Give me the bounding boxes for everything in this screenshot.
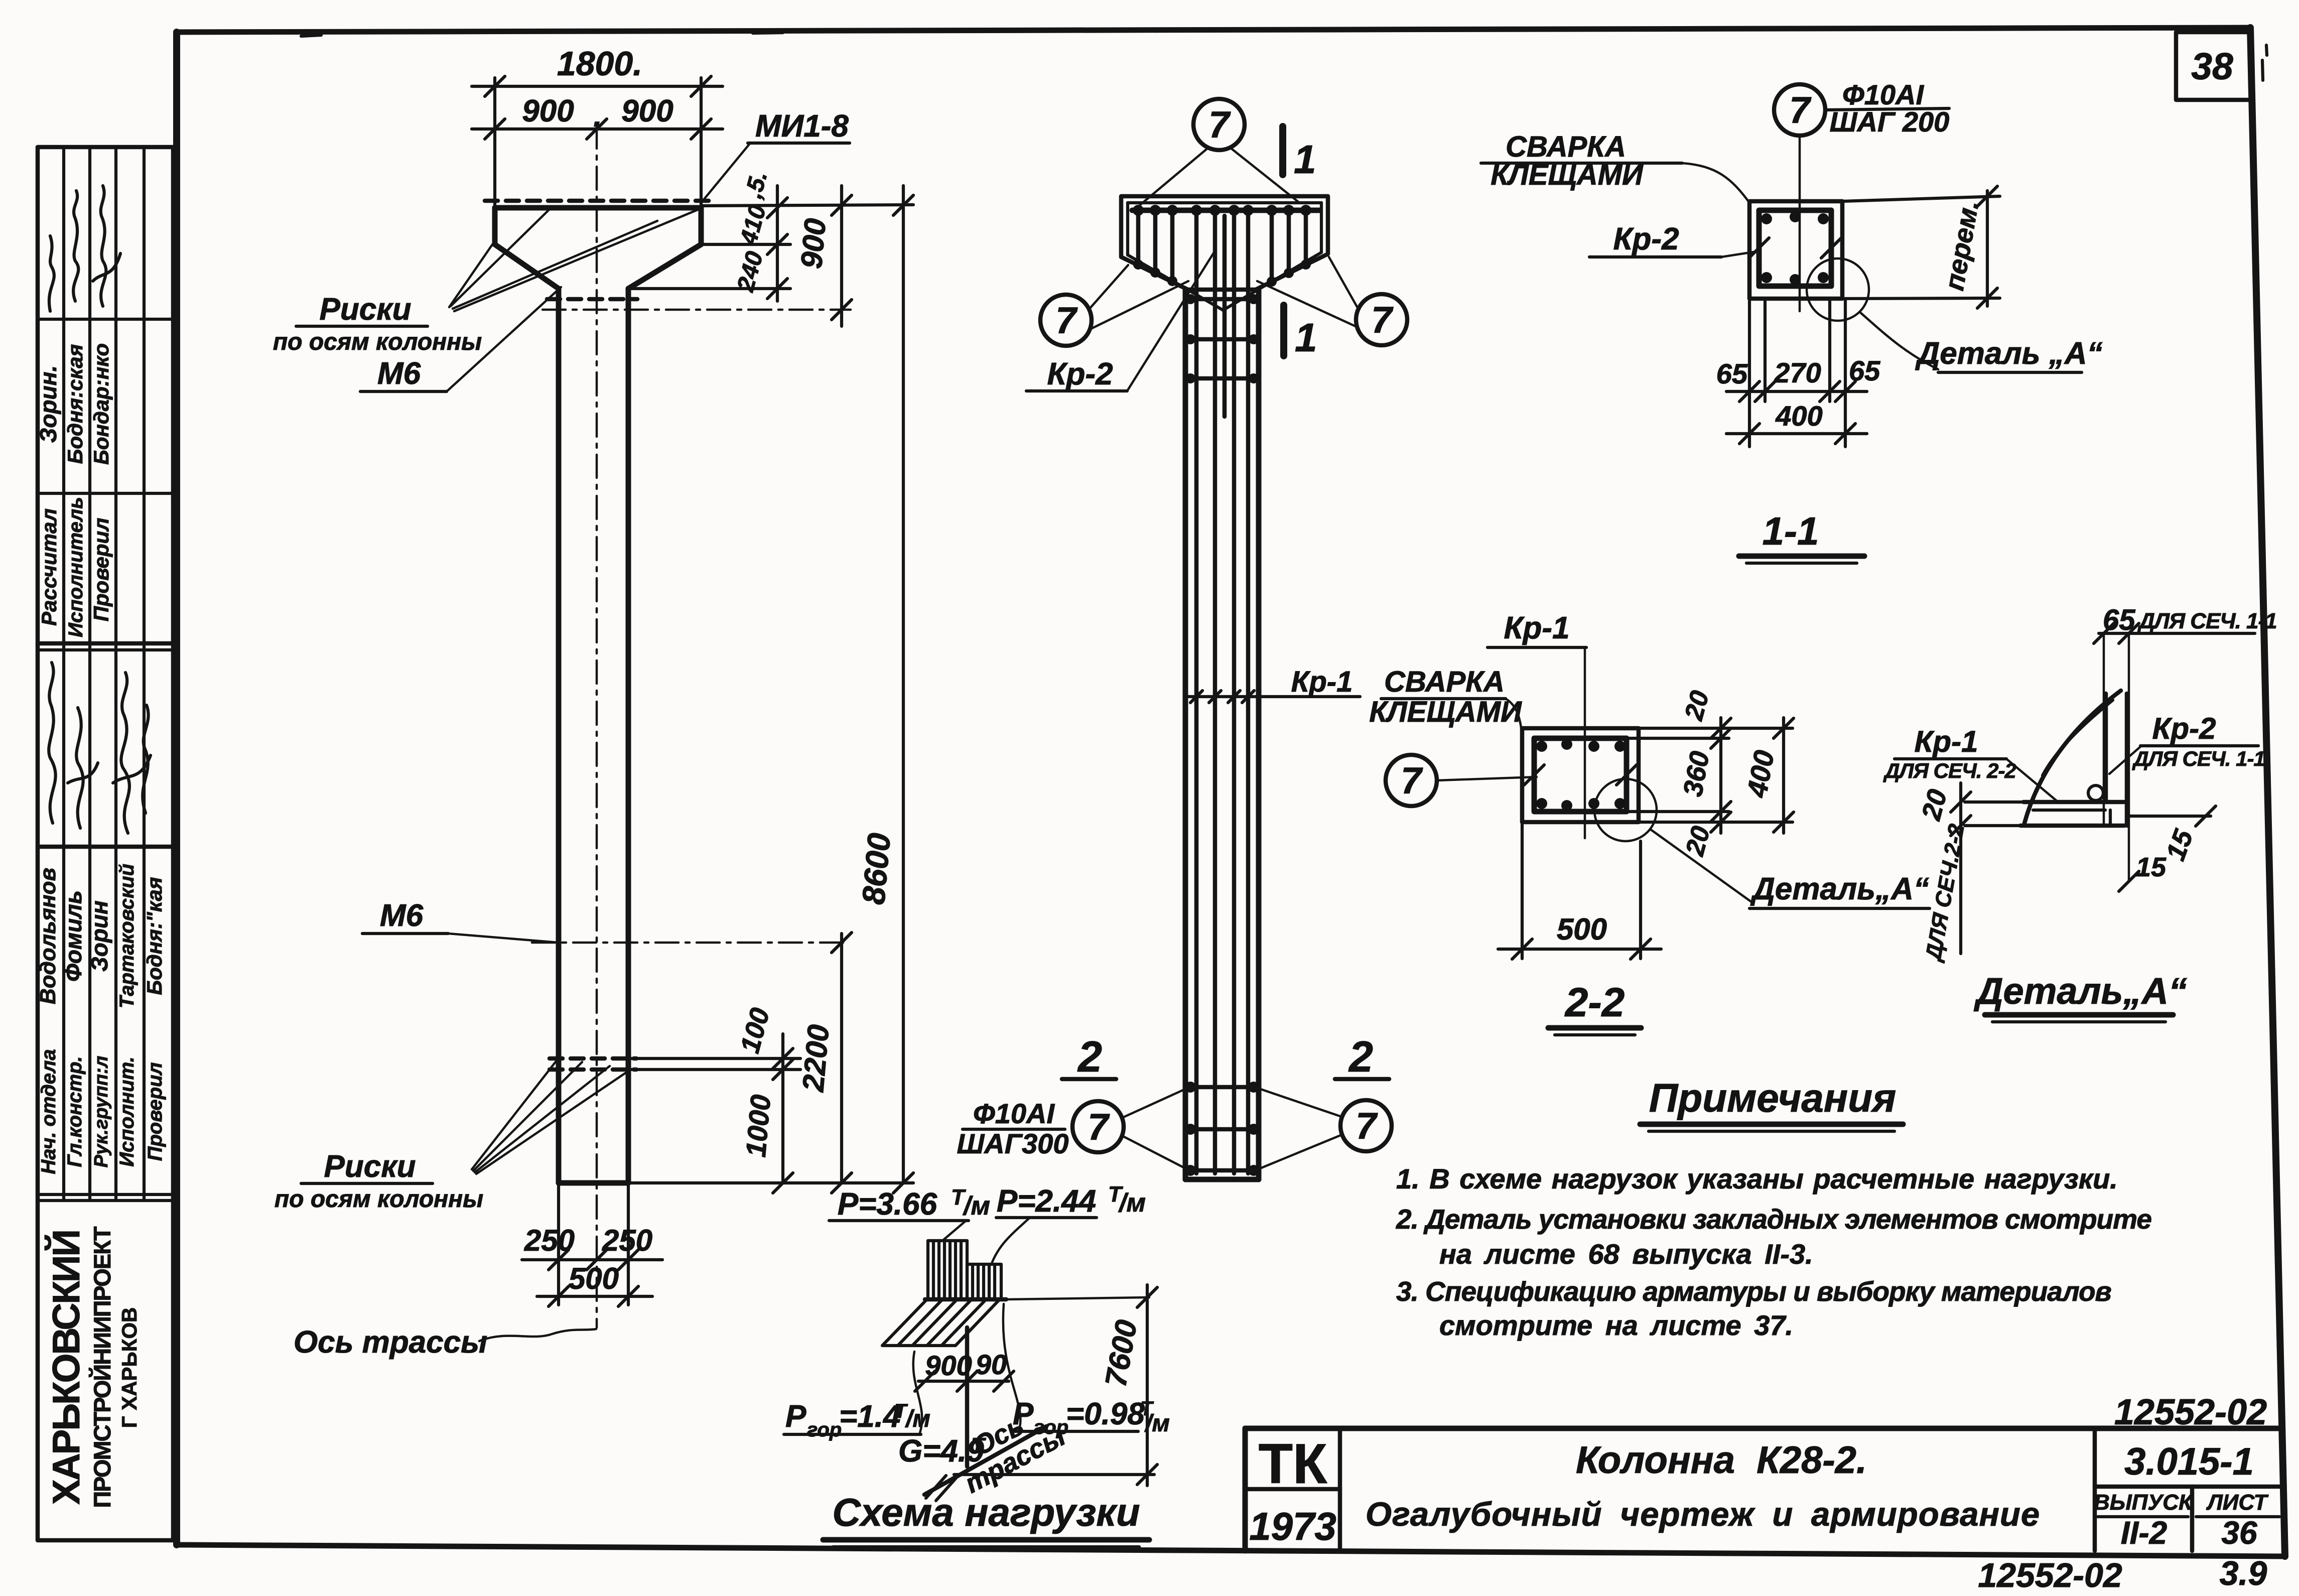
svg-text:КЛЕЩАМИ: КЛЕЩАМИ [1369, 696, 1522, 728]
svg-text:270: 270 [1774, 357, 1821, 388]
svg-text:500: 500 [1557, 912, 1607, 946]
svg-text:8600: 8600 [855, 832, 897, 906]
svg-text:Бодня:ская: Бодня:ская [63, 344, 87, 464]
svg-text:Схема нагрузки: Схема нагрузки [833, 1490, 1140, 1534]
svg-text:Деталь„А“: Деталь„А“ [1973, 970, 2187, 1012]
svg-text:38: 38 [2191, 45, 2233, 87]
svg-text:65: 65 [1716, 358, 1748, 389]
svg-text:900: 900 [522, 94, 574, 128]
svg-text:Рассчитал: Рассчитал [37, 508, 61, 626]
svg-text:гор: гор [807, 1419, 842, 1441]
svg-text:1000: 1000 [740, 1094, 777, 1159]
svg-text:по осям колонны: по осям колонны [273, 329, 482, 355]
svg-text:/м: /м [1118, 1188, 1146, 1218]
svg-text:Примечания: Примечания [1649, 1076, 1896, 1120]
svg-text:ЛИСТ: ЛИСТ [2206, 1490, 2269, 1515]
svg-text:Риски: Риски [319, 292, 411, 327]
svg-text:=0.98: =0.98 [1066, 1397, 1145, 1431]
svg-text:СВАРКА: СВАРКА [1384, 666, 1505, 698]
svg-text:100: 100 [735, 1005, 775, 1056]
svg-text:Проверил: Проверил [89, 518, 113, 622]
svg-text:Тартаковский: Тартаковский [116, 864, 138, 1008]
svg-text:400: 400 [1775, 400, 1822, 432]
svg-text:500: 500 [569, 1262, 619, 1295]
svg-text:М6: М6 [380, 898, 424, 933]
svg-text:Бондар:нко: Бондар:нко [89, 343, 113, 465]
svg-text:ПРОМСТРОЙНИИПРОЕКТ: ПРОМСТРОЙНИИПРОЕКТ [89, 1226, 115, 1508]
svg-text:Водольянов: Водольянов [36, 868, 60, 1004]
svg-text:на листе 68 выпуска II-3.: на листе 68 выпуска II-3. [1439, 1238, 1813, 1270]
svg-text:1: 1 [1295, 315, 1317, 360]
svg-text:ШАГ 200: ШАГ 200 [1830, 106, 1950, 138]
svg-text:15: 15 [2136, 852, 2167, 882]
svg-text:/м: /м [963, 1191, 990, 1221]
svg-text:ВЫПУСК: ВЫПУСК [2094, 1490, 2194, 1515]
svg-text:КЛЕЩАМИ: КЛЕЩАМИ [1491, 159, 1644, 191]
svg-text:ХАРЬКОВСКИЙ: ХАРЬКОВСКИЙ [45, 1231, 88, 1505]
svg-text:Проверил: Проверил [144, 1062, 166, 1161]
svg-text:Огалубочный чертеж и армирова: Огалубочный чертеж и армирование [1366, 1496, 2040, 1533]
svg-text:Колонна К28-2.: Колонна К28-2. [1576, 1439, 1867, 1482]
svg-text:Кр-2: Кр-2 [1613, 222, 1679, 256]
svg-text:/м: /м [905, 1406, 930, 1432]
svg-text:400: 400 [1740, 748, 1780, 800]
svg-text:20: 20 [1679, 688, 1715, 724]
svg-text:P=2.44: P=2.44 [997, 1184, 1096, 1219]
svg-text:Рук.групп:л: Рук.групп:л [91, 1056, 112, 1168]
svg-text:Фомиль: Фомиль [60, 890, 86, 982]
svg-text:3.9: 3.9 [2220, 1554, 2267, 1592]
svg-text:2: 2 [1348, 1033, 1373, 1081]
svg-text:Кр-2: Кр-2 [2152, 712, 2216, 745]
svg-text:2. Деталь установки закладн: 2. Деталь установки закладных элементов … [1396, 1204, 2151, 1235]
svg-text:P=3.66: P=3.66 [838, 1187, 937, 1222]
svg-text:Исполнит.: Исполнит. [116, 1056, 138, 1167]
svg-text:90: 90 [976, 1349, 1007, 1380]
svg-text:Ф10АІ: Ф10АІ [973, 1098, 1055, 1129]
svg-text:ДЛЯ СЕЧ. 2-2: ДЛЯ СЕЧ. 2-2 [1883, 759, 2016, 782]
svg-text:Ось трассы: Ось трассы [294, 1325, 487, 1360]
svg-text:3. Спецификацию арматуры и: 3. Спецификацию арматуры и выборку матер… [1396, 1276, 2111, 1307]
svg-text:Г ХАРЬКОВ: Г ХАРЬКОВ [117, 1307, 141, 1428]
svg-text:=1.4: =1.4 [839, 1399, 900, 1434]
svg-text:М6: М6 [377, 356, 421, 391]
svg-text:1. В схеме нагрузок указаны: 1. В схеме нагрузок указаны расчетные на… [1396, 1163, 2118, 1194]
svg-text:360: 360 [1678, 749, 1715, 799]
svg-text:смотрите на листе 37.: смотрите на листе 37. [1439, 1309, 1793, 1341]
svg-text:1973: 1973 [1249, 1504, 1336, 1548]
svg-text:ШАГ300: ШАГ300 [957, 1128, 1068, 1159]
svg-text:2-2: 2-2 [1564, 980, 1625, 1025]
svg-text:20: 20 [1916, 786, 1953, 824]
svg-text:перем.: перем. [1939, 198, 1985, 293]
svg-text:ТК: ТК [1259, 1432, 1327, 1495]
svg-text:,5.: ,5. [740, 168, 772, 201]
svg-text:15: 15 [2160, 825, 2199, 864]
svg-text:900: 900 [794, 217, 832, 270]
svg-text:1800.: 1800. [557, 45, 642, 83]
svg-text:МИ1-8: МИ1-8 [755, 109, 849, 144]
svg-text:65: 65 [1849, 355, 1880, 386]
svg-text:7600: 7600 [1099, 1317, 1143, 1389]
svg-text:900: 900 [621, 94, 673, 128]
svg-text:Деталь„А“: Деталь„А“ [1750, 872, 1929, 906]
svg-text:Р: Р [785, 1399, 806, 1434]
svg-text:1-1: 1-1 [1763, 509, 1819, 553]
svg-text:410: 410 [735, 202, 771, 248]
svg-text:по осям колонны: по осям колонны [275, 1186, 483, 1213]
svg-text:Деталь „А“: Деталь „А“ [1915, 336, 2102, 371]
svg-text:II-2: II-2 [2121, 1515, 2167, 1551]
svg-text:Зорин: Зорин [86, 900, 112, 972]
svg-text:Бодня:"кая: Бодня:"кая [143, 877, 166, 995]
svg-text:900: 900 [925, 1350, 972, 1381]
svg-text:1: 1 [1294, 137, 1316, 182]
svg-text:ДЛЯ СЕЧ. 1-1: ДЛЯ СЕЧ. 1-1 [2132, 747, 2265, 770]
svg-text:Кр-1: Кр-1 [1915, 725, 1978, 758]
svg-text:Гл.констр.: Гл.констр. [64, 1056, 86, 1167]
svg-text:36: 36 [2221, 1515, 2257, 1551]
svg-text:12552-02: 12552-02 [1978, 1556, 2122, 1594]
svg-text:2: 2 [1077, 1033, 1102, 1081]
svg-text:ДЛЯ СЕЧ. 1-1: ДЛЯ СЕЧ. 1-1 [2137, 609, 2277, 633]
svg-text:Нач. отдела: Нач. отдела [38, 1049, 60, 1174]
svg-text:Риски: Риски [324, 1149, 416, 1184]
svg-text:Кр-2: Кр-2 [1047, 357, 1113, 391]
svg-text:Кр-1: Кр-1 [1504, 611, 1569, 645]
svg-text:3.015-1: 3.015-1 [2124, 1440, 2254, 1483]
svg-text:Кр-1: Кр-1 [1291, 666, 1353, 698]
svg-text:Зорин.: Зорин. [35, 365, 61, 443]
svg-text:250: 250 [602, 1224, 652, 1257]
svg-text:Исполнитель: Исполнитель [65, 497, 87, 637]
svg-text:250: 250 [524, 1224, 575, 1257]
